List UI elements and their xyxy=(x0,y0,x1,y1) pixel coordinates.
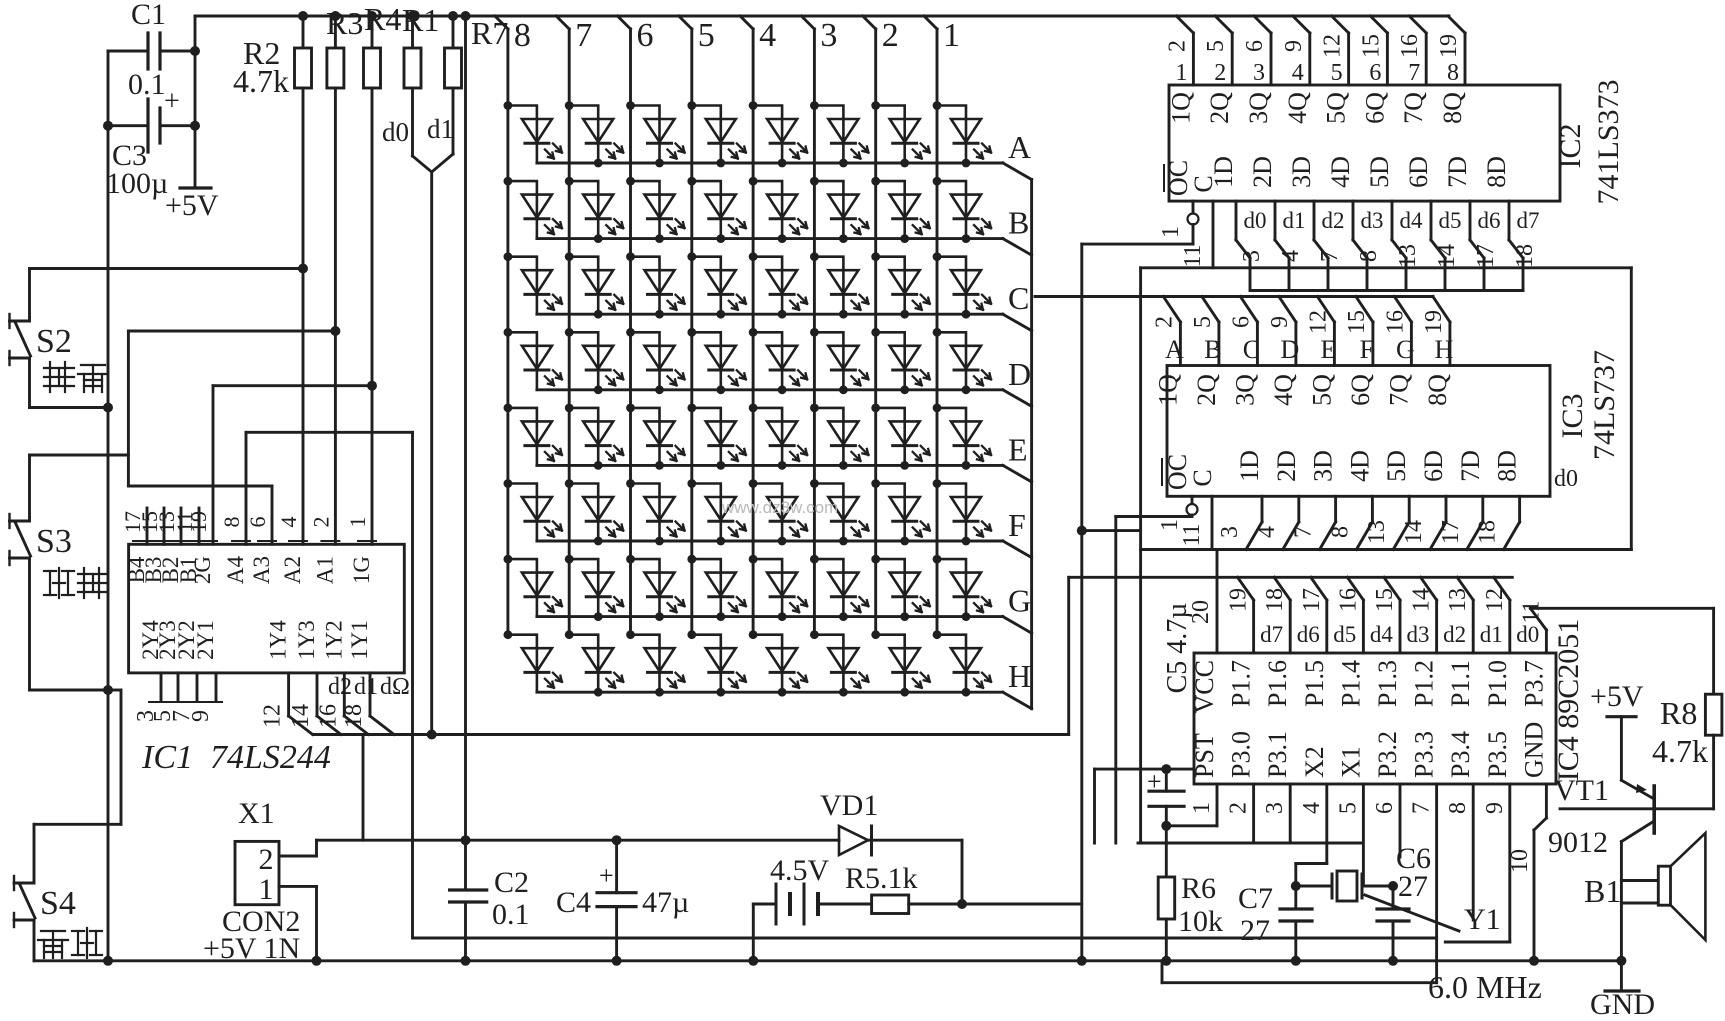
svg-text:P3.7: P3.7 xyxy=(1519,660,1548,707)
svg-text:R6: R6 xyxy=(1181,872,1216,905)
svg-text:8: 8 xyxy=(1447,60,1459,86)
svg-text:3D: 3D xyxy=(1309,450,1338,482)
svg-text:+: + xyxy=(1147,767,1162,796)
svg-text:15: 15 xyxy=(1344,310,1370,334)
label S4 jiaozhun xyxy=(41,930,65,932)
svg-text:R7: R7 xyxy=(471,15,508,51)
svg-text:C5 4.7µ: C5 4.7µ xyxy=(1162,603,1193,694)
svg-text:1: 1 xyxy=(1158,226,1184,238)
svg-text:S4: S4 xyxy=(40,885,76,922)
IC IC2 74LS373 xyxy=(1169,85,1560,201)
svg-text:47µ: 47µ xyxy=(642,886,689,919)
svg-text:1Q: 1Q xyxy=(1153,374,1182,406)
wire +5V long vertical xyxy=(464,16,467,890)
wire row A cathode line xyxy=(537,162,1003,165)
svg-text:7: 7 xyxy=(1317,250,1343,262)
svg-text:2: 2 xyxy=(259,843,274,876)
svg-text:X2: X2 xyxy=(1300,746,1329,778)
svg-text:d3: d3 xyxy=(1407,622,1430,647)
wire aux line IC1 to IC4 xyxy=(413,937,1436,940)
svg-text:E: E xyxy=(1008,431,1028,467)
svg-text:8Q: 8Q xyxy=(1438,92,1467,124)
svg-text:D: D xyxy=(1008,356,1031,392)
transistor VT1 9012 xyxy=(1652,786,1656,833)
svg-text:1Q: 1Q xyxy=(1166,92,1195,124)
svg-text:d5: d5 xyxy=(1333,622,1356,647)
svg-text:19: 19 xyxy=(1436,34,1462,58)
svg-text:9: 9 xyxy=(188,710,214,722)
svg-text:H: H xyxy=(1008,658,1031,694)
svg-text:6: 6 xyxy=(245,517,270,528)
svg-text:d1: d1 xyxy=(354,674,378,700)
wire aux loop bottom xyxy=(1435,938,1438,983)
svg-text:4: 4 xyxy=(276,517,301,528)
svg-text:5: 5 xyxy=(1331,60,1343,86)
svg-text:P1.0: P1.0 xyxy=(1483,660,1512,707)
svg-text:5: 5 xyxy=(698,17,715,54)
svg-text:PST: PST xyxy=(1190,733,1219,778)
wire S2 top xyxy=(28,269,31,322)
capacitor C6 27 xyxy=(1392,886,1395,909)
wire IC3 ring left xyxy=(1139,268,1142,843)
svg-text:d2: d2 xyxy=(1322,208,1345,233)
svg-text:d6: d6 xyxy=(1478,208,1501,233)
svg-text:0.1: 0.1 xyxy=(128,68,166,101)
LED row D xyxy=(508,332,562,390)
svg-text:1: 1 xyxy=(1189,802,1215,814)
svg-text:4: 4 xyxy=(1299,802,1325,814)
wire X1 pin1 xyxy=(279,885,317,888)
svg-text:2Q: 2Q xyxy=(1205,92,1234,124)
svg-text:d7: d7 xyxy=(1260,622,1283,647)
svg-text:3: 3 xyxy=(1217,526,1243,538)
IC4 pin1 RST wire xyxy=(1216,784,1219,826)
svg-text:5Q: 5Q xyxy=(1307,374,1336,406)
svg-text:8: 8 xyxy=(1327,526,1353,538)
svg-text:A: A xyxy=(1165,335,1184,364)
IC IC3 74LS373 xyxy=(1167,366,1550,497)
wire row G cathode line xyxy=(537,615,1003,618)
svg-text:C1: C1 xyxy=(131,0,166,31)
svg-text:9: 9 xyxy=(1281,40,1307,52)
wire IC4 d-bus xyxy=(1069,576,1513,579)
svg-text:R3: R3 xyxy=(326,5,363,41)
svg-text:15: 15 xyxy=(1358,34,1384,58)
svg-text:1D: 1D xyxy=(1209,156,1238,188)
IC4 data pins from bus xyxy=(1252,600,1255,653)
svg-text:6: 6 xyxy=(637,17,654,54)
svg-text:1Y1: 1Y1 xyxy=(347,620,372,660)
wire X1 pin2 xyxy=(279,855,317,858)
wire IC3 ring top xyxy=(1141,266,1632,269)
resistor R7 xyxy=(452,16,455,48)
svg-text:12: 12 xyxy=(1482,588,1508,612)
LED row H xyxy=(508,635,562,693)
svg-text:IC2: IC2 xyxy=(1554,124,1587,169)
svg-text:11: 11 xyxy=(1179,523,1205,546)
svg-text:3: 3 xyxy=(1262,802,1288,814)
IC1 pin 4 A2 wire xyxy=(302,269,305,545)
svg-text:G: G xyxy=(1396,335,1415,364)
svg-text:d7: d7 xyxy=(1517,208,1540,233)
svg-text:12: 12 xyxy=(1320,34,1346,58)
svg-text:2Q: 2Q xyxy=(1192,374,1221,406)
node d0 d1 merge xyxy=(413,156,432,172)
svg-text:741LS373: 741LS373 xyxy=(1592,79,1625,204)
wire IC3 ring right xyxy=(1630,268,1633,550)
svg-text:S2: S2 xyxy=(36,323,72,360)
svg-text:X1: X1 xyxy=(238,797,275,830)
wire row H cathode line xyxy=(537,691,1003,694)
svg-text:P1.6: P1.6 xyxy=(1263,660,1292,707)
IC2 pin 11 C latch-enable xyxy=(1212,201,1215,268)
svg-text:IC4 89C2051: IC4 89C2051 xyxy=(1552,619,1585,782)
resistor R6 10k xyxy=(1165,826,1168,877)
diode VD1 xyxy=(839,826,868,855)
svg-text:dΩ: dΩ xyxy=(380,674,410,700)
svg-text:1G: 1G xyxy=(349,556,374,584)
svg-text:7: 7 xyxy=(1408,60,1420,86)
wire row F cathode line xyxy=(537,540,1003,543)
svg-text:18: 18 xyxy=(1475,520,1501,544)
svg-text:GND: GND xyxy=(1519,722,1548,778)
svg-text:74LS737: 74LS737 xyxy=(1588,350,1621,460)
svg-text:3Q: 3Q xyxy=(1244,92,1273,124)
wire ground bus xyxy=(34,959,1621,962)
IC3 pin 1 OC xyxy=(1191,496,1194,504)
svg-text:0.1: 0.1 xyxy=(492,898,530,931)
svg-text:2: 2 xyxy=(308,517,333,528)
svg-text:11: 11 xyxy=(1180,244,1206,267)
wire d-bus horizontal xyxy=(313,733,1069,736)
svg-text:1: 1 xyxy=(1175,60,1187,86)
wire top bus +5V xyxy=(195,15,1449,18)
svg-text:VT1: VT1 xyxy=(1554,774,1609,807)
svg-text:2G: 2G xyxy=(190,556,215,584)
wire +5V feed horizontal xyxy=(317,839,840,842)
svg-text:6: 6 xyxy=(1372,802,1398,814)
svg-text:5: 5 xyxy=(1190,316,1216,328)
capacitor C2 0.1 xyxy=(450,888,487,891)
svg-text:d5: d5 xyxy=(1439,208,1462,233)
svg-text:R5.1k: R5.1k xyxy=(845,862,918,895)
matrix column lines and top diagonals xyxy=(506,29,509,635)
svg-text:4: 4 xyxy=(1292,60,1304,86)
svg-text:2: 2 xyxy=(1214,60,1226,86)
svg-text:4D: 4D xyxy=(1345,450,1374,482)
svg-text:GND: GND xyxy=(1590,988,1655,1016)
svg-text:B: B xyxy=(1204,335,1221,364)
svg-text:IC1 74LS244: IC1 74LS244 xyxy=(141,739,331,776)
svg-text:P1.3: P1.3 xyxy=(1373,660,1402,707)
svg-text:3Q: 3Q xyxy=(1230,374,1259,406)
svg-text:VD1: VD1 xyxy=(820,789,878,822)
svg-text:9012: 9012 xyxy=(1548,826,1608,859)
svg-text:C: C xyxy=(1008,280,1029,316)
IC1 B-pin stubs xyxy=(146,508,149,544)
IC4 pin7 wire xyxy=(1435,784,1438,938)
wire matrix row bus to IC3 xyxy=(1035,295,1433,298)
svg-text:d2: d2 xyxy=(1443,622,1466,647)
svg-text:7D: 7D xyxy=(1443,156,1472,188)
IC2 top pins to matrix bus xyxy=(1192,33,1195,85)
svg-text:4.7k: 4.7k xyxy=(1652,733,1708,769)
svg-text:Y1: Y1 xyxy=(1464,903,1501,936)
label S2 weitiao xyxy=(44,367,74,369)
svg-text:F: F xyxy=(1360,335,1374,364)
svg-text:16: 16 xyxy=(1335,588,1361,612)
svg-text:6D: 6D xyxy=(1419,450,1448,482)
wire row C cathode line xyxy=(537,313,1003,316)
IC4 pin 11 P3.7 wire to R8 xyxy=(1545,630,1548,653)
svg-text:9: 9 xyxy=(1482,802,1508,814)
svg-text:3D: 3D xyxy=(1287,156,1316,188)
svg-text:2Y1: 2Y1 xyxy=(193,620,218,660)
svg-text:2D: 2D xyxy=(1272,450,1301,482)
svg-text:R1: R1 xyxy=(402,2,439,38)
IC4 pin 20 VCC wire xyxy=(1216,550,1219,654)
svg-text:14: 14 xyxy=(288,704,314,728)
svg-text:6D: 6D xyxy=(1404,156,1433,188)
svg-text:d0: d0 xyxy=(1516,622,1539,647)
svg-text:7: 7 xyxy=(575,17,592,54)
svg-text:3: 3 xyxy=(1253,60,1265,86)
svg-text:X1: X1 xyxy=(1336,746,1365,778)
svg-text:H: H xyxy=(1435,335,1454,364)
wire S4 top xyxy=(33,824,36,883)
svg-text:1Y4: 1Y4 xyxy=(266,620,291,660)
svg-text:P1.7: P1.7 xyxy=(1227,660,1256,707)
svg-text:+: + xyxy=(599,861,614,890)
svg-text:7: 7 xyxy=(1291,526,1317,538)
connector X1 CON2 xyxy=(235,841,279,904)
resistor R4 xyxy=(371,16,374,48)
svg-text:6: 6 xyxy=(1369,60,1381,86)
svg-text:4Q: 4Q xyxy=(1283,92,1312,124)
svg-text:+: + xyxy=(164,86,180,117)
svg-text:18: 18 xyxy=(341,704,367,728)
wire left rail xyxy=(107,51,110,961)
svg-text:8Q: 8Q xyxy=(1423,374,1452,406)
svg-text:+5V: +5V xyxy=(1590,680,1644,713)
svg-text:1: 1 xyxy=(259,873,274,906)
wire row collector vertical xyxy=(1030,180,1033,709)
svg-text:A1: A1 xyxy=(312,556,337,584)
wire S4 bottom xyxy=(33,920,36,961)
svg-text:6Q: 6Q xyxy=(1360,92,1389,124)
svg-text:2: 2 xyxy=(1164,40,1190,52)
svg-text:6.0 MHz: 6.0 MHz xyxy=(1428,969,1542,1005)
LED row G xyxy=(508,559,562,617)
svg-text:2: 2 xyxy=(1151,316,1177,328)
IC4 pin5 X1 wire xyxy=(1362,784,1365,886)
resistor R3 xyxy=(334,16,337,48)
IC IC1 74LS244 xyxy=(129,544,405,673)
power +5V symbol xyxy=(180,186,211,189)
svg-text:G: G xyxy=(1008,583,1031,619)
svg-text:8: 8 xyxy=(514,17,531,54)
label Y1 pointer xyxy=(1365,895,1459,931)
svg-text:10k: 10k xyxy=(1178,905,1223,938)
resistor R8 4.7k xyxy=(1712,608,1715,694)
resistor R2 4.7k xyxy=(302,16,305,48)
svg-text:8: 8 xyxy=(1445,802,1471,814)
svg-text:4Q: 4Q xyxy=(1269,374,1298,406)
IC1 pin 1 1G wire xyxy=(371,386,374,545)
svg-text:P1.4: P1.4 xyxy=(1336,660,1365,707)
svg-text:1Y2: 1Y2 xyxy=(321,620,346,660)
svg-text:A2: A2 xyxy=(280,556,305,584)
svg-text:3: 3 xyxy=(820,17,837,54)
svg-text:6: 6 xyxy=(1242,40,1268,52)
svg-text:13: 13 xyxy=(1364,520,1390,544)
LED row E xyxy=(508,408,562,466)
svg-text:+5V: +5V xyxy=(165,189,219,222)
svg-text:VCC: VCC xyxy=(1190,660,1219,713)
speaker B1 xyxy=(1621,879,1658,882)
capacitor C4 47u xyxy=(615,840,618,893)
svg-text:A: A xyxy=(1008,129,1031,165)
svg-text:27: 27 xyxy=(1240,914,1270,947)
svg-text:A3: A3 xyxy=(249,556,274,584)
IC IC4 89C2051 xyxy=(1194,653,1556,784)
svg-text:C2: C2 xyxy=(494,866,529,899)
svg-text:7Q: 7Q xyxy=(1384,374,1413,406)
svg-text:S3: S3 xyxy=(36,523,72,560)
IC4 pin8 stub xyxy=(1472,784,1475,920)
wire row D cathode line xyxy=(537,388,1003,391)
IC2 pin 1 OC output-enable xyxy=(1192,201,1195,213)
svg-text:15: 15 xyxy=(1372,588,1398,612)
wire C1-C3 right vertical xyxy=(194,16,197,188)
svg-text:2: 2 xyxy=(1226,802,1252,814)
svg-text:5Q: 5Q xyxy=(1322,92,1351,124)
IC1 pin 2 A1 wire xyxy=(334,331,337,544)
svg-text:d0: d0 xyxy=(382,117,409,147)
svg-text:P3.4: P3.4 xyxy=(1446,731,1475,778)
wire 1Y2 to X1 line xyxy=(362,735,365,841)
svg-text:7Q: 7Q xyxy=(1399,92,1428,124)
svg-text:4.7k: 4.7k xyxy=(233,63,289,99)
resistor R1 xyxy=(411,16,414,48)
resistor R5 1k xyxy=(872,895,909,914)
switch S4 xyxy=(14,882,34,885)
svg-text:14: 14 xyxy=(1401,520,1427,544)
svg-text:5D: 5D xyxy=(1382,450,1411,482)
svg-text:d0: d0 xyxy=(1554,466,1578,492)
svg-text:P3.3: P3.3 xyxy=(1410,731,1439,778)
svg-text:8D: 8D xyxy=(1493,450,1522,482)
IC4 pin9 wire xyxy=(1508,784,1511,942)
svg-text:8: 8 xyxy=(219,517,244,528)
IC1 pin 19 2G wire xyxy=(212,386,215,545)
svg-text:19: 19 xyxy=(1226,588,1252,612)
LED row F xyxy=(508,484,562,542)
IC4 pin4 X2 wire xyxy=(1325,784,1328,864)
svg-text:1Y3: 1Y3 xyxy=(294,620,319,660)
svg-text:D: D xyxy=(1281,335,1300,364)
svg-text:4.5V: 4.5V xyxy=(770,854,830,887)
svg-text:3: 3 xyxy=(1239,250,1265,262)
svg-text:16: 16 xyxy=(1397,34,1423,58)
svg-text:7: 7 xyxy=(1409,802,1435,814)
svg-text:27: 27 xyxy=(1398,870,1428,903)
svg-text:5: 5 xyxy=(1203,40,1229,52)
svg-text:5: 5 xyxy=(1335,802,1361,814)
svg-text:P3.0: P3.0 xyxy=(1227,731,1256,778)
svg-text:8D: 8D xyxy=(1482,156,1511,188)
svg-text:P3.2: P3.2 xyxy=(1373,731,1402,778)
switch S2 xyxy=(10,320,30,323)
svg-text:1: 1 xyxy=(345,517,370,528)
LED row A xyxy=(508,106,562,164)
svg-text:18: 18 xyxy=(1262,588,1288,612)
svg-text:C: C xyxy=(1243,335,1260,364)
wire IC2 data bus xyxy=(1250,289,1523,292)
svg-text:6Q: 6Q xyxy=(1346,374,1375,406)
IC4 pin10 GND wire xyxy=(1545,784,1548,818)
svg-text:12: 12 xyxy=(1305,310,1331,334)
svg-text:14: 14 xyxy=(1409,588,1435,612)
svg-text:d2: d2 xyxy=(328,674,352,700)
IC1 pin 8 A4 wire xyxy=(245,432,248,544)
svg-text:17: 17 xyxy=(1299,588,1325,612)
IC4 pin2 pin3 wires xyxy=(1252,784,1255,843)
svg-text:16: 16 xyxy=(1382,310,1408,334)
switch S3 xyxy=(10,520,30,523)
LED row B xyxy=(508,181,562,239)
crystal Y1 xyxy=(1296,885,1332,888)
svg-text:P1.1: P1.1 xyxy=(1446,660,1475,707)
wire crystal rail xyxy=(1138,842,1362,845)
wire d0d1 down xyxy=(430,172,433,735)
svg-text:d4: d4 xyxy=(1370,622,1394,647)
label S3 dingshi xyxy=(44,570,56,572)
svg-text:11: 11 xyxy=(1518,600,1544,623)
svg-text:7D: 7D xyxy=(1456,450,1485,482)
svg-text:100µ: 100µ xyxy=(106,167,168,200)
wire IC2 OC line xyxy=(1082,243,1193,246)
svg-text:2D: 2D xyxy=(1248,156,1277,188)
svg-text:C4: C4 xyxy=(556,886,591,919)
ground GND xyxy=(1616,956,1626,966)
capacitor C1 xyxy=(108,50,148,53)
svg-text:16: 16 xyxy=(315,704,341,728)
svg-text:17: 17 xyxy=(1438,520,1464,544)
svg-text:4D: 4D xyxy=(1326,156,1355,188)
IC3 top pins xyxy=(1179,322,1182,366)
svg-text:1D: 1D xyxy=(1235,450,1264,482)
svg-text:R8: R8 xyxy=(1660,695,1697,731)
svg-text:4: 4 xyxy=(1254,526,1280,538)
wire S3 bottom xyxy=(28,558,31,690)
wire row B cathode line xyxy=(537,237,1003,240)
svg-text:B1: B1 xyxy=(1584,873,1621,909)
svg-text:P1.2: P1.2 xyxy=(1410,660,1439,707)
svg-text:P1.5: P1.5 xyxy=(1300,660,1329,707)
wire S2 bottom xyxy=(28,358,31,408)
IC3 pin 11 C xyxy=(1211,496,1214,549)
svg-text:4: 4 xyxy=(759,17,776,54)
IC4 pin6 stub xyxy=(1399,784,1402,857)
capacitor C3 xyxy=(108,124,148,127)
svg-text:d6: d6 xyxy=(1297,622,1320,647)
capacitor C5 4.7u xyxy=(1095,768,1195,771)
svg-text:13: 13 xyxy=(1445,588,1471,612)
svg-text:1: 1 xyxy=(943,17,960,54)
svg-text:F: F xyxy=(1008,507,1026,543)
IC1 pin 6 A3 stub xyxy=(271,486,274,544)
